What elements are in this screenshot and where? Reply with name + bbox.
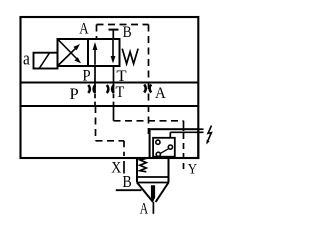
wire port T [113,66,115,94]
cartridge spring [140,158,147,171]
solenoid a diagonal [39,53,49,68]
cover inner box [153,138,175,157]
pilot X dashed horizontal [96,140,125,142]
orifice on T [107,85,109,93]
cover channel jog [169,132,171,138]
cartridge funnel right [156,183,169,203]
drain line T solid stub below [113,106,115,121]
valve V1 down arrow B-T [112,39,114,60]
pilot line dashed A stub [96,25,98,40]
cartridge poppet [151,185,155,202]
orifice on P [88,85,90,93]
cover diagonal link [161,149,169,154]
lightning bolt [208,126,212,141]
svg-text:P: P [70,86,79,103]
interface line lower [21,105,199,107]
cartridge body left edge [136,158,138,183]
cartridge funnel left [137,183,153,203]
orifice on A [144,85,146,93]
svg-text:T: T [116,68,126,85]
drain line dashed horizontal to Y [114,120,184,122]
cartridge seat line upper [137,176,169,178]
svg-text:X: X [111,160,121,177]
valve V1 crossed arrow A-T [59,40,78,60]
svg-text:A: A [79,21,89,38]
svg-text:B: B [123,172,132,191]
pilot X dashed drop to port [123,141,125,156]
cover orifice circle 1 [156,140,160,144]
cover orifice circle 2 [168,145,172,149]
port B plug bar [109,29,119,31]
svg-text:T: T [116,84,125,101]
cartridge body right edge [168,158,170,183]
svg-text:Y: Y [188,162,197,178]
cover channel lower line [170,131,203,133]
svg-text:A: A [155,85,166,102]
pilot line dashed vertical to cover [148,25,150,135]
solenoid a box [34,53,58,69]
valve V1 right square [88,39,120,66]
interface line upper [21,81,199,83]
svg-text:A: A [140,201,149,218]
port A wire [152,202,154,214]
manifold block outline [21,17,199,158]
cartridge seat line lower [137,182,169,184]
cover orifice circle 3 [156,152,160,156]
valve V1 left square [58,39,89,66]
svg-text:B: B [123,24,132,41]
svg-text:a: a [23,48,30,69]
cover plate outline [150,129,199,158]
pilot X dashed drop from P [95,106,97,141]
valve V1 crossed arrow P-B [59,48,77,66]
pilot line dashed top horizontal [97,24,149,26]
cover channel top line extension [198,128,203,130]
wire port P [94,66,96,94]
port B stub wire [112,30,114,39]
port B wire [116,189,142,191]
valve V1 up arrow P-A [94,46,96,65]
drain line Y vertical [183,121,185,131]
svg-text:P: P [82,68,90,85]
spring W glyph [122,49,138,64]
